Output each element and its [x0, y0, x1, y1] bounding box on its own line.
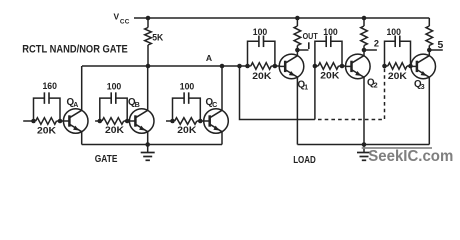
svg-text:SeekIC.com: SeekIC.com: [368, 148, 453, 165]
svg-text:20K: 20K: [37, 126, 56, 136]
svg-text:20K: 20K: [388, 71, 407, 81]
svg-text:5: 5: [438, 40, 444, 51]
svg-text:100: 100: [107, 82, 122, 92]
svg-text:5K: 5K: [152, 33, 163, 43]
svg-text:20K: 20K: [252, 71, 271, 81]
svg-text:A: A: [206, 53, 212, 63]
svg-text:20K: 20K: [177, 125, 196, 135]
svg-text:OUT: OUT: [303, 31, 319, 41]
svg-text:CC: CC: [120, 18, 130, 25]
svg-text:100: 100: [253, 27, 268, 37]
svg-text:2: 2: [374, 81, 378, 90]
svg-text:100: 100: [180, 82, 195, 92]
svg-text:A: A: [73, 100, 78, 109]
svg-text:V: V: [114, 11, 120, 21]
svg-text:20K: 20K: [105, 125, 124, 135]
svg-text:2: 2: [374, 38, 379, 48]
svg-text:C: C: [212, 100, 217, 109]
svg-text:20K: 20K: [320, 71, 339, 81]
svg-text:GATE: GATE: [95, 154, 118, 165]
svg-text:LOAD: LOAD: [293, 155, 316, 166]
svg-text:3: 3: [421, 82, 425, 91]
svg-text:RCTL NAND/NOR GATE: RCTL NAND/NOR GATE: [22, 43, 128, 55]
svg-text:1: 1: [304, 83, 308, 92]
svg-text:B: B: [135, 100, 140, 109]
svg-text:100: 100: [323, 27, 338, 37]
svg-text:100: 100: [386, 27, 401, 37]
svg-text:160: 160: [42, 81, 57, 91]
